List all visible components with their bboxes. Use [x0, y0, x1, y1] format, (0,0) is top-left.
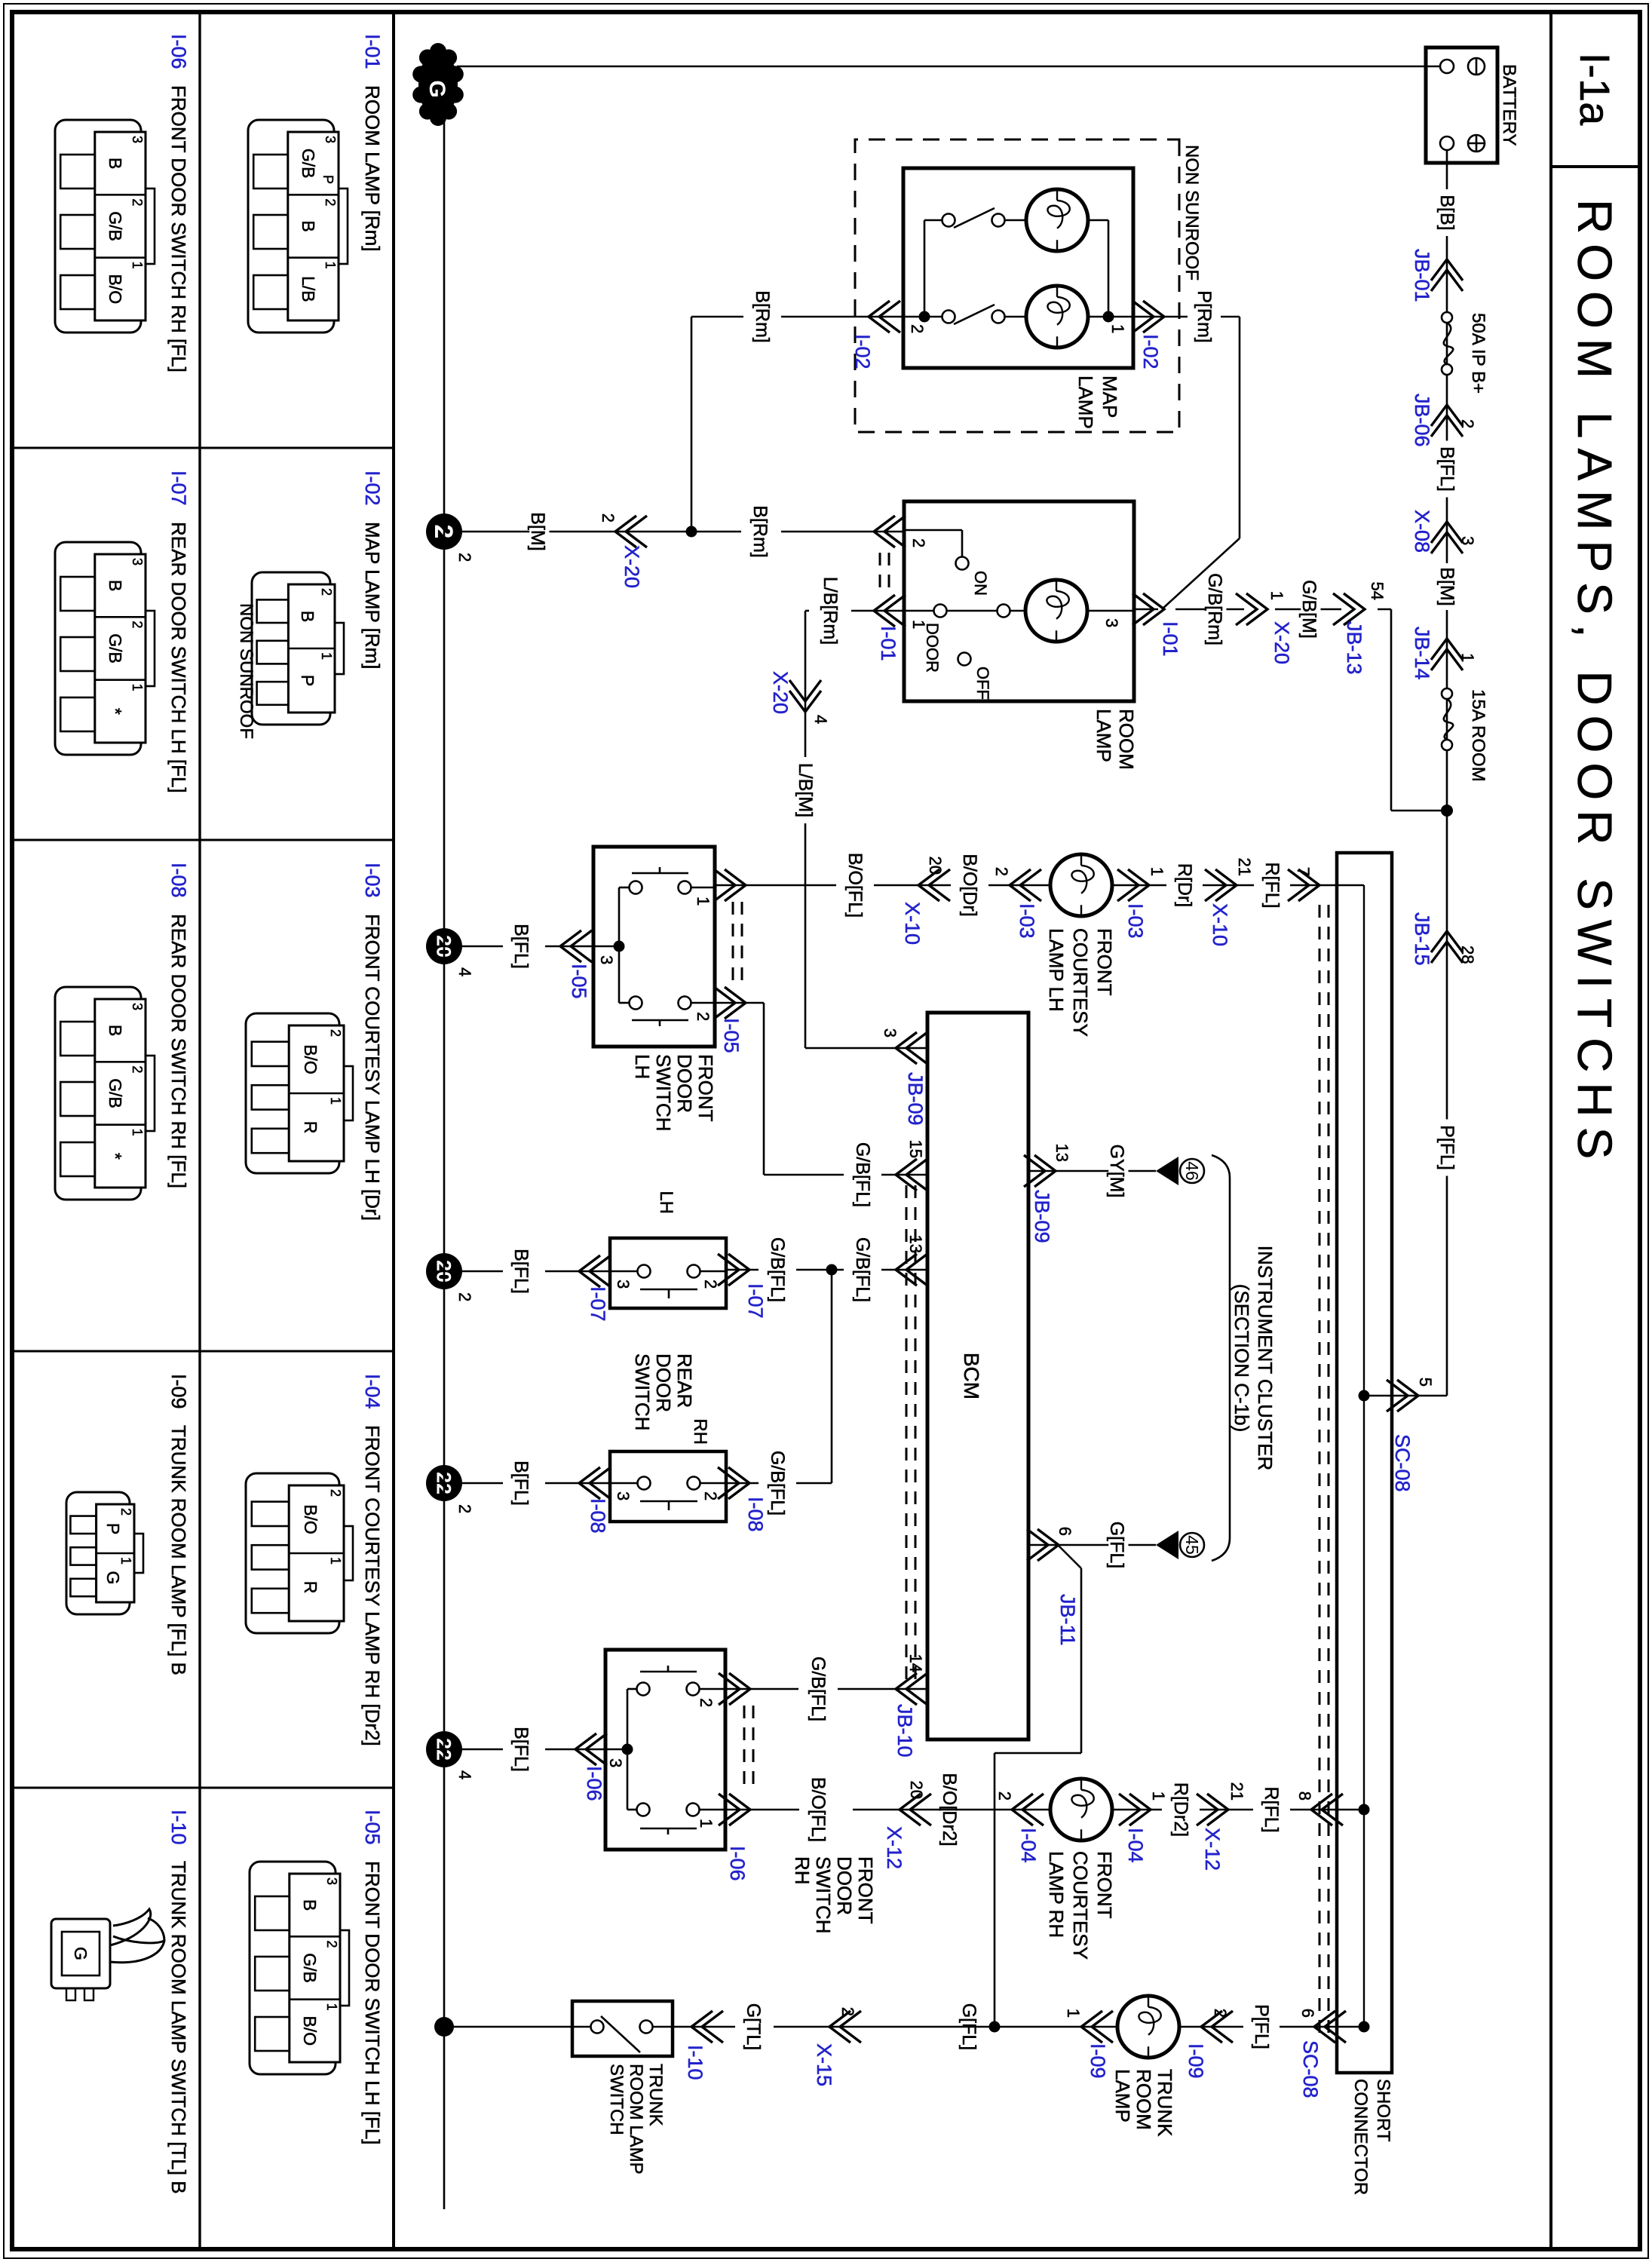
- wire R[FL] from short connector: [1290, 884, 1364, 887]
- svg-text:JB-10: JB-10: [893, 1704, 916, 1758]
- svg-text:X-12: X-12: [1201, 1828, 1224, 1871]
- connector I-03 pin 1: [1117, 869, 1149, 901]
- svg-text:P[FL]: P[FL]: [1251, 2004, 1272, 2049]
- svg-text:1: 1: [909, 620, 928, 629]
- svg-text:G/B[FL]: G/B[FL]: [852, 1237, 873, 1302]
- P[Rm] route to room lamp wire: [1239, 317, 1241, 538]
- svg-text:2: 2: [992, 867, 1011, 876]
- internal bus / pin 3: [619, 887, 630, 889]
- svg-text:2: 2: [328, 1029, 343, 1037]
- connector X-12 pin 21: [1197, 1794, 1228, 1825]
- feed down to SC-08 pin 5: [1364, 1395, 1447, 1397]
- connector I-08 pin 2: [718, 1467, 749, 1499]
- svg-text:46: 46: [1182, 1161, 1202, 1181]
- svg-text:1: 1: [323, 262, 338, 269]
- BCM pin 15 wire G/B[FL]: [881, 1174, 927, 1176]
- svg-text:13: 13: [1053, 1144, 1071, 1162]
- connector X-20 pin 4: [789, 680, 821, 712]
- svg-text:3: 3: [323, 136, 338, 143]
- svg-text:G/B: G/B: [106, 1078, 125, 1108]
- svg-text:I-06: I-06: [583, 1766, 605, 1801]
- svg-text:DOOR: DOOR: [833, 1856, 856, 1915]
- svg-text:JB-11: JB-11: [1056, 1594, 1079, 1646]
- svg-text:FRONT: FRONT: [1093, 1851, 1116, 1919]
- svg-text:7: 7: [1294, 867, 1313, 876]
- svg-text:SC-08: SC-08: [1391, 1434, 1414, 1492]
- svg-text:R[Dr]: R[Dr]: [1174, 863, 1195, 907]
- svg-text:I-01: I-01: [361, 34, 384, 69]
- svg-text:1: 1: [1108, 324, 1127, 333]
- dashed pair I-05: [741, 902, 743, 989]
- pin 3 wire to bubble 22: [545, 1749, 605, 1751]
- svg-text:REAR DOOR SWITCH RH [FL]: REAR DOOR SWITCH RH [FL]: [167, 914, 190, 1188]
- svg-text:3: 3: [130, 1003, 145, 1010]
- connector X-12 pin 20: [900, 1794, 931, 1825]
- connector drawing I-05: [250, 1862, 336, 2074]
- svg-text:1: 1: [1148, 867, 1166, 876]
- svg-text:FRONT: FRONT: [694, 1054, 717, 1122]
- svg-text:LAMP LH: LAMP LH: [1045, 928, 1068, 1012]
- short connector box: [1337, 853, 1392, 2073]
- svg-text:2: 2: [323, 198, 338, 206]
- svg-text:1: 1: [130, 1129, 145, 1136]
- ground bus: [443, 90, 446, 2209]
- svg-text:LH: LH: [631, 1054, 654, 1079]
- svg-text:50A IP B+: 50A IP B+: [1468, 313, 1488, 394]
- svg-text:X-12: X-12: [883, 1826, 906, 1869]
- connector drawing I-08: [55, 987, 141, 1200]
- svg-text:TRUNK: TRUNK: [645, 2064, 666, 2126]
- svg-text:2: 2: [130, 198, 145, 206]
- svg-text:REAR: REAR: [673, 1353, 696, 1408]
- svg-text:I-02: I-02: [1139, 334, 1162, 369]
- svg-text:1: 1: [328, 1557, 343, 1565]
- connector drawing I-03: [246, 1013, 339, 1173]
- connector X-20 pin 2: [615, 516, 647, 547]
- svg-text:I-10: I-10: [167, 1810, 190, 1845]
- wire from short connector pin 8: [1337, 1809, 1364, 1811]
- svg-text:RH: RH: [791, 1856, 814, 1885]
- svg-text:54: 54: [1368, 582, 1387, 600]
- svg-text:1: 1: [328, 1097, 343, 1105]
- svg-text:2: 2: [324, 1940, 339, 1948]
- pin 3 wire to ground bubble 20: [545, 946, 593, 948]
- svg-text:2: 2: [599, 513, 618, 523]
- ground bubble 2: [426, 513, 462, 550]
- svg-text:3: 3: [614, 1491, 633, 1500]
- map lamp pin1 node: [1088, 316, 1133, 318]
- svg-text:R[FL]: R[FL]: [1261, 862, 1283, 908]
- connector drawing I-02: [252, 572, 330, 725]
- feed wire B[B] from battery: [1446, 150, 1448, 1396]
- svg-text:2: 2: [701, 1280, 720, 1289]
- svg-text:2: 2: [455, 1504, 474, 1513]
- svg-text:2: 2: [995, 1792, 1014, 1801]
- connector JB-06 pin 2: [1431, 405, 1463, 437]
- instrument cluster bracket: [1212, 1155, 1230, 1561]
- connector I-09 pin 2: [1201, 2011, 1233, 2043]
- svg-text:2: 2: [455, 553, 474, 562]
- trunk room lamp: [1117, 1996, 1179, 2058]
- svg-text:DOOR: DOOR: [923, 623, 942, 673]
- svg-text:FRONT: FRONT: [1093, 928, 1116, 996]
- svg-text:3: 3: [1102, 618, 1121, 627]
- sidebar middle divider: [198, 12, 201, 2249]
- svg-text:4: 4: [811, 715, 830, 724]
- svg-text:G: G: [71, 1947, 90, 1960]
- svg-text:G[TL]: G[TL]: [743, 2003, 764, 2051]
- svg-text:3: 3: [614, 1280, 633, 1289]
- room lamp DOOR contact: [947, 610, 997, 612]
- svg-text:13: 13: [906, 1235, 925, 1253]
- battery: [1426, 48, 1497, 163]
- svg-text:X-10: X-10: [1209, 903, 1231, 946]
- svg-text:I-02: I-02: [851, 334, 874, 369]
- svg-text:B/O: B/O: [301, 1504, 320, 1534]
- svg-text:P: P: [298, 675, 317, 686]
- map lamp pin 2: [903, 316, 924, 318]
- svg-text:LH: LH: [656, 1191, 676, 1214]
- svg-text:COURTESY: COURTESY: [1069, 1851, 1092, 1960]
- svg-text:B[FL]: B[FL]: [510, 1727, 532, 1772]
- svg-text:R: R: [301, 1121, 320, 1134]
- svg-text:45: 45: [1182, 1535, 1202, 1555]
- svg-text:L/B[M]: L/B[M]: [795, 763, 816, 817]
- connector I-05 pin 1: [714, 869, 746, 901]
- svg-text:SWITCH: SWITCH: [631, 1353, 654, 1431]
- svg-text:I-09: I-09: [167, 1374, 190, 1409]
- svg-text:1: 1: [319, 652, 334, 660]
- connector I-07 pin 2: [718, 1254, 749, 1286]
- connector I-06 pin 2: [719, 1673, 750, 1705]
- svg-text:2: 2: [1211, 2009, 1230, 2018]
- svg-text:JB-09: JB-09: [1031, 1190, 1053, 1243]
- svg-text:B[Rm]: B[Rm]: [752, 290, 773, 342]
- instrument cluster input 45: [1156, 1531, 1178, 1559]
- svg-text:I-05: I-05: [361, 1810, 384, 1845]
- connector I-01 pin 3: [1132, 593, 1164, 625]
- svg-text:B[B]: B[B]: [1436, 195, 1457, 230]
- rear LH pin3 wire to bubble: [545, 1270, 610, 1273]
- front courtesy lamp RH: [1050, 1779, 1112, 1841]
- rear RH pin3 wire to bubble: [545, 1482, 610, 1485]
- svg-text:SWITCH: SWITCH: [812, 1856, 835, 1934]
- wire up to BCM JB-09 pin 3: [805, 1047, 927, 1050]
- map lamp box: [903, 168, 1133, 368]
- front door switch LH box: [593, 847, 715, 1047]
- wire map lamp to room pin2 wire: [691, 317, 693, 532]
- wire to ground bus: [444, 2026, 572, 2028]
- svg-text:1: 1: [130, 262, 145, 269]
- svg-text:1: 1: [1267, 591, 1286, 600]
- connector X-08 pin 3: [1431, 522, 1463, 553]
- svg-text:I-03: I-03: [361, 863, 384, 898]
- svg-text:JB-09: JB-09: [904, 1072, 927, 1126]
- connector X-10 pin 21: [1205, 869, 1237, 901]
- room lamp switch common contact: [1010, 610, 1025, 612]
- fuse 15A ROOM: [1442, 688, 1452, 699]
- dashed pair below short connector: [1328, 905, 1330, 2036]
- svg-text:*: *: [106, 708, 125, 715]
- trunk room lamp switch box: [572, 2001, 673, 2056]
- room lamp pin2 wire: [781, 531, 904, 533]
- svg-text:2: 2: [130, 1065, 145, 1073]
- svg-text:ROOM LAMP [Rm]: ROOM LAMP [Rm]: [361, 85, 384, 252]
- svg-text:2: 2: [838, 2007, 857, 2016]
- svg-text:JB-14: JB-14: [1411, 627, 1433, 680]
- connector SC-08 pin 5: [1387, 1380, 1418, 1411]
- svg-text:FRONT COURTESY LAMP LH [Dr]: FRONT COURTESY LAMP LH [Dr]: [361, 914, 384, 1221]
- svg-text:20: 20: [926, 857, 945, 875]
- svg-text:ON: ON: [971, 571, 990, 596]
- connector drawing I-09: [66, 1492, 130, 1614]
- branch to rear door switch RH: [831, 1270, 833, 1483]
- svg-text:I-02: I-02: [361, 470, 384, 506]
- junction node feed/room-lamp branch: [1441, 805, 1453, 817]
- svg-text:X-15: X-15: [813, 2043, 835, 2086]
- connector I-04 pin 2: [1012, 1794, 1044, 1825]
- banner bottom line: [1549, 12, 1552, 2249]
- svg-text:LAMP: LAMP: [1074, 375, 1097, 429]
- svg-text:RH: RH: [690, 1418, 710, 1445]
- wire G/B[Rm]: [1175, 608, 1244, 611]
- svg-text:R[FL]: R[FL]: [1261, 1786, 1282, 1832]
- svg-text:G/B: G/B: [106, 211, 125, 241]
- svg-text:L/B[Rm]: L/B[Rm]: [820, 577, 841, 645]
- connector I-06 pin 1: [719, 1794, 750, 1825]
- svg-text:DOOR: DOOR: [673, 1054, 696, 1113]
- svg-text:B[FL]: B[FL]: [510, 924, 532, 969]
- BCM pin 14 wire G/B[FL]: [838, 1688, 927, 1690]
- svg-text:B[Rm]: B[Rm]: [749, 505, 771, 557]
- svg-text:X-20: X-20: [1270, 621, 1293, 664]
- svg-text:2: 2: [701, 1491, 720, 1500]
- svg-text:15: 15: [906, 1140, 925, 1158]
- svg-text:G: G: [424, 80, 449, 97]
- connector I-04 pin 1: [1119, 1794, 1151, 1825]
- svg-text:SC-08: SC-08: [1299, 2040, 1322, 2098]
- svg-text:CONNECTOR: CONNECTOR: [1350, 2079, 1371, 2195]
- BCM pin6 branch to trunk lamp switch: [1058, 1545, 1081, 1568]
- svg-text:2: 2: [908, 324, 927, 333]
- BCM pin 13 wire G/B[FL]: [881, 1269, 927, 1271]
- svg-text:3: 3: [606, 1758, 625, 1767]
- svg-text:L/B: L/B: [299, 276, 318, 302]
- svg-text:B[M]: B[M]: [1436, 567, 1457, 605]
- svg-text:B[FL]: B[FL]: [1436, 446, 1457, 492]
- svg-text:I-09: I-09: [1087, 2043, 1109, 2079]
- svg-text:3: 3: [1458, 536, 1477, 545]
- connector JB-15 pin 28: [1431, 931, 1463, 963]
- svg-text:R[Dr2]: R[Dr2]: [1170, 1782, 1191, 1837]
- svg-text:OFF: OFF: [973, 667, 992, 700]
- BCM box: [927, 1013, 1028, 1739]
- svg-text:FRONT DOOR SWITCH RH [FL]: FRONT DOOR SWITCH RH [FL]: [167, 85, 190, 372]
- connector X-10 pin 20: [918, 869, 950, 901]
- svg-text:G/B[Rm]: G/B[Rm]: [1204, 573, 1225, 645]
- svg-text:I-05: I-05: [720, 1018, 743, 1053]
- svg-text:GY[M]: GY[M]: [1106, 1145, 1127, 1198]
- instrument cluster input 46: [1156, 1157, 1178, 1185]
- connector I-02 pin 2: [869, 301, 900, 333]
- svg-text:JB-15: JB-15: [1411, 912, 1433, 966]
- wire battery to ground bus: [1426, 66, 1440, 68]
- rear door switch RH box: [610, 1451, 726, 1522]
- svg-text:BATTERY: BATTERY: [1499, 64, 1519, 146]
- svg-text:G/B[FL]: G/B[FL]: [852, 1142, 873, 1207]
- rear door switch LH box: [610, 1238, 726, 1308]
- svg-text:SWITCH: SWITCH: [652, 1054, 675, 1132]
- svg-text:2: 2: [455, 1292, 474, 1301]
- svg-text:X-20: X-20: [621, 545, 643, 588]
- svg-text:I-08: I-08: [167, 863, 190, 898]
- room lamp box: [904, 501, 1134, 701]
- svg-text:I-08: I-08: [744, 1497, 767, 1532]
- svg-text:B/O: B/O: [301, 1044, 320, 1074]
- svg-text:6: 6: [1056, 1527, 1074, 1536]
- svg-text:B/O: B/O: [300, 2016, 320, 2046]
- map lamp bottom rung: [924, 220, 926, 317]
- svg-text:DOOR: DOOR: [652, 1353, 675, 1412]
- svg-text:1: 1: [697, 1819, 716, 1828]
- svg-text:MAP: MAP: [1099, 375, 1121, 418]
- connector drawing I-04: [246, 1473, 339, 1633]
- svg-text:P: P: [103, 1523, 123, 1534]
- connector drawing I-10: [51, 1919, 110, 1988]
- svg-text:P[Rm]: P[Rm]: [1194, 290, 1215, 342]
- svg-text:I-04: I-04: [361, 1374, 384, 1409]
- svg-text:1: 1: [1149, 1792, 1168, 1801]
- svg-text:TRUNK: TRUNK: [1154, 2069, 1176, 2137]
- svg-text:I-05: I-05: [568, 964, 590, 999]
- svg-text:(SECTION C-1b): (SECTION C-1b): [1231, 1284, 1253, 1432]
- connector I-02 pin 1: [1132, 301, 1164, 333]
- svg-text:R: R: [301, 1581, 320, 1594]
- connector I-09 pin 1: [1081, 2011, 1113, 2043]
- svg-text:B/O[Dr]: B/O[Dr]: [959, 854, 980, 916]
- svg-text:3: 3: [130, 558, 145, 565]
- svg-text:14: 14: [906, 1654, 925, 1672]
- svg-text:2: 2: [1458, 419, 1477, 428]
- connector I-05 pin 2: [714, 987, 746, 1019]
- svg-text:G: G: [103, 1571, 123, 1585]
- map lamp bulb 1: [1026, 286, 1088, 348]
- front courtesy lamp LH: [1050, 854, 1112, 916]
- svg-text:BCM: BCM: [960, 1353, 983, 1399]
- svg-text:JB-06: JB-06: [1411, 394, 1433, 447]
- svg-text:TRUNK ROOM LAMP [FL] B: TRUNK ROOM LAMP [FL] B: [167, 1425, 190, 1675]
- svg-text:3: 3: [324, 1877, 339, 1885]
- non sunroof dashed box: [855, 139, 1179, 432]
- svg-text:G/B: G/B: [106, 633, 125, 664]
- svg-text:1: 1: [1064, 2009, 1083, 2018]
- svg-text:I-10: I-10: [684, 2045, 706, 2080]
- wire junction to JB-13: [1391, 810, 1447, 812]
- svg-text:FRONT DOOR SWITCH LH [FL]: FRONT DOOR SWITCH LH [FL]: [361, 1861, 384, 2145]
- room lamp pin1 wire L/B: [851, 610, 904, 612]
- svg-text:2: 2: [319, 588, 334, 596]
- svg-text:ROOM: ROOM: [1132, 2069, 1155, 2130]
- svg-text:I-07: I-07: [587, 1286, 609, 1322]
- svg-text:G[FL]: G[FL]: [1106, 1522, 1127, 1569]
- svg-text:I-06: I-06: [726, 1846, 749, 1881]
- room lamp OFF contact: [958, 653, 971, 666]
- wire from short connector pin 6: [1337, 2026, 1364, 2028]
- svg-text:6: 6: [1298, 2009, 1317, 2018]
- blades: [632, 872, 688, 875]
- svg-text:B: B: [300, 1899, 320, 1911]
- pin1/pin2 wires crossing box top: [691, 887, 715, 889]
- svg-text:B: B: [106, 580, 125, 591]
- sidebar top divider: [392, 12, 395, 2249]
- svg-text:B/O[FL]: B/O[FL]: [844, 853, 866, 918]
- connector I-01 pin 2 / pin 1 below room lamp: [874, 516, 906, 547]
- svg-text:20: 20: [907, 1781, 926, 1799]
- svg-text:P[FL]: P[FL]: [1436, 1125, 1457, 1170]
- svg-text:X-08: X-08: [1411, 510, 1433, 553]
- BCM pin 13 top wire GY[M]: [1028, 1170, 1156, 1172]
- room lamp bulb: [1087, 610, 1134, 612]
- svg-text:I-01: I-01: [877, 626, 900, 661]
- svg-text:SHORT: SHORT: [1373, 2079, 1393, 2142]
- svg-text:5: 5: [1416, 1378, 1435, 1387]
- svg-text:P: P: [320, 175, 336, 184]
- ground symbol G: [412, 43, 464, 126]
- short connector bus: [1363, 885, 1365, 2027]
- svg-text:ROOM LAMPS, DOOR SWITCHS: ROOM LAMPS, DOOR SWITCHS: [1568, 199, 1622, 1169]
- svg-text:LAMP RH: LAMP RH: [1045, 1851, 1068, 1938]
- svg-text:4: 4: [455, 967, 474, 976]
- svg-text:1: 1: [694, 897, 713, 906]
- svg-text:3: 3: [597, 955, 616, 964]
- svg-text:MAP LAMP [Rm]: MAP LAMP [Rm]: [361, 522, 384, 670]
- svg-text:B[FL]: B[FL]: [510, 1249, 532, 1294]
- sidebar column dividers: [12, 447, 394, 449]
- svg-text:G/B[FL]: G/B[FL]: [767, 1451, 788, 1516]
- svg-text:X-20: X-20: [769, 671, 792, 714]
- svg-text:B: B: [299, 220, 318, 231]
- svg-text:G/B[M]: G/B[M]: [1298, 580, 1319, 639]
- map lamp top rung: [1108, 220, 1110, 317]
- map lamp P[Rm] wire up: [1221, 316, 1240, 318]
- svg-text:B/O[FL]: B/O[FL]: [808, 1777, 829, 1842]
- svg-text:I-1a: I-1a: [1571, 53, 1619, 126]
- svg-text:ROOM LAMP: ROOM LAMP: [626, 2064, 646, 2175]
- dashed pair I-06: [752, 1706, 755, 1793]
- svg-text:I-03: I-03: [1016, 903, 1038, 939]
- contacts: [679, 881, 691, 894]
- svg-text:G/B: G/B: [299, 149, 318, 179]
- svg-text:REAR DOOR SWITCH LH [FL]: REAR DOOR SWITCH LH [FL]: [167, 522, 190, 793]
- svg-text:LAMP: LAMP: [1093, 709, 1115, 762]
- svg-text:G/B[FL]: G/B[FL]: [808, 1657, 829, 1721]
- svg-text:COURTESY: COURTESY: [1069, 928, 1092, 1037]
- svg-text:I-09: I-09: [1185, 2043, 1207, 2079]
- room lamp pin 2 branch: [904, 529, 962, 532]
- svg-text:2: 2: [130, 621, 145, 628]
- svg-text:4: 4: [455, 1770, 474, 1779]
- svg-text:21: 21: [1228, 1782, 1246, 1801]
- svg-text:I-06: I-06: [167, 34, 190, 69]
- svg-text:INSTRUMENT CLUSTER: INSTRUMENT CLUSTER: [1254, 1246, 1277, 1471]
- dashed connector line along BCM bottom: [915, 1185, 917, 1683]
- svg-text:21: 21: [1235, 858, 1254, 876]
- svg-text:28: 28: [1458, 946, 1477, 964]
- connector JB-15 pin 7: [1288, 869, 1319, 901]
- map lamp switch 1: [1005, 316, 1026, 318]
- svg-text:1: 1: [118, 1557, 133, 1565]
- connector drawing I-07: [55, 542, 141, 755]
